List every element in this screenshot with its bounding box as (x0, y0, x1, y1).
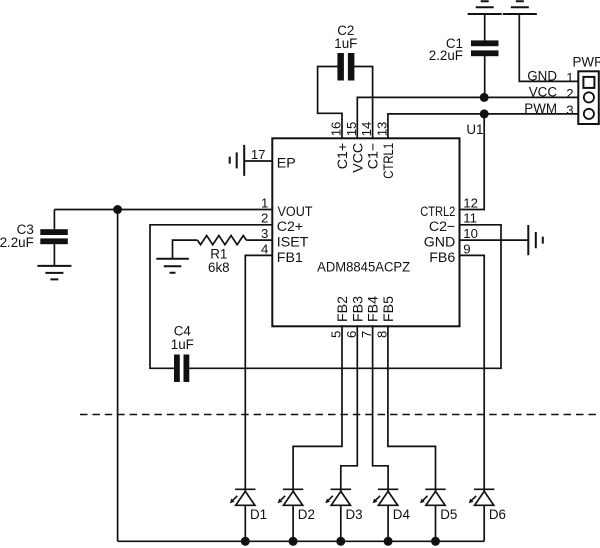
svg-text:VCC: VCC (529, 84, 558, 99)
capacitor C1 stem top (484, 14, 486, 40)
wire pin6 FB3 to D3 (341, 325, 358, 491)
svg-text:6k8: 6k8 (208, 260, 230, 275)
svg-text:D3: D3 (346, 507, 363, 522)
wire GND connector pin1 (519, 14, 578, 81)
svg-text:9: 9 (463, 241, 470, 256)
svg-text:1: 1 (261, 195, 268, 210)
capacitor C3 plates (40, 229, 68, 235)
svg-text:PWR: PWR (573, 55, 600, 70)
connector PWR pad 3 circle (584, 109, 594, 119)
ground above C1 (468, 1, 502, 14)
svg-text:EP: EP (277, 155, 296, 171)
LED D1 (230, 489, 256, 546)
svg-text:C2+: C2+ (277, 219, 303, 235)
capacitor C2 plates (337, 53, 344, 81)
svg-text:D4: D4 (393, 507, 411, 522)
connector PWR pad 1 square (583, 77, 594, 88)
svg-text:4: 4 (261, 241, 268, 256)
ground below C3 (37, 266, 71, 280)
capacitor C1 plates (471, 50, 499, 56)
svg-text:GND: GND (527, 69, 557, 84)
svg-text:C1+: C1+ (335, 143, 351, 169)
LED D3 (325, 489, 351, 546)
node VCC junction (480, 93, 489, 102)
svg-text:ISET: ISET (277, 235, 309, 251)
LED D2 (278, 489, 304, 546)
wire VOUT pin1 horizontal (54, 209, 272, 211)
svg-text:CTRL2: CTRL2 (420, 204, 455, 220)
svg-text:5: 5 (329, 331, 344, 338)
svg-text:14: 14 (359, 122, 374, 137)
svg-text:FB2: FB2 (335, 296, 351, 322)
wire PWM to pin12 CTRL2 (460, 114, 485, 210)
svg-text:2: 2 (566, 86, 573, 101)
wire pin10 GND (460, 239, 529, 241)
pin 17 EP wire (244, 160, 272, 162)
svg-text:1uF: 1uF (171, 337, 194, 352)
svg-text:D6: D6 (489, 507, 506, 522)
wire pin16 C1+ stub (318, 67, 342, 139)
svg-text:D5: D5 (440, 507, 457, 522)
resistor R1 zigzag (197, 236, 246, 245)
svg-text:2.2uF: 2.2uF (429, 48, 463, 63)
ground at pin10 (528, 225, 543, 255)
svg-text:8: 8 (375, 331, 390, 338)
svg-text:VCC: VCC (350, 143, 366, 173)
wire pin3 ISET lead (246, 239, 272, 241)
svg-text:17: 17 (251, 147, 266, 162)
svg-text:10: 10 (463, 226, 478, 241)
svg-text:6: 6 (344, 331, 359, 338)
connector PWR box (578, 71, 599, 124)
wire pin7 FB4 to D4 (373, 325, 389, 491)
svg-text:CTRL1: CTRL1 (381, 143, 397, 179)
wire C4 to pin11 C2- (189, 225, 501, 368)
svg-text:C2−: C2− (429, 219, 455, 235)
svg-text:GND: GND (424, 235, 456, 251)
wire pin4 FB1 to D1 (245, 255, 272, 491)
svg-text:15: 15 (344, 122, 359, 137)
capacitor C3 stem top (53, 210, 55, 230)
svg-text:C1−: C1− (366, 143, 382, 169)
svg-text:3: 3 (566, 103, 573, 118)
svg-text:D1: D1 (250, 507, 267, 522)
svg-text:11: 11 (463, 211, 477, 226)
wire pin2 C2+ to C4 (150, 225, 272, 368)
capacitor C1 stem bottom (484, 56, 486, 97)
svg-text:12: 12 (463, 195, 478, 210)
svg-text:U1: U1 (466, 122, 483, 137)
svg-text:FB6: FB6 (429, 250, 455, 266)
svg-text:13: 13 (375, 122, 390, 137)
capacitor C4 plates (174, 355, 180, 383)
svg-text:1: 1 (566, 70, 573, 85)
svg-text:ADM8845ACPZ: ADM8845ACPZ (317, 260, 410, 276)
wire pin15 VCC (357, 97, 578, 138)
capacitor C3 stem bottom (53, 244, 55, 266)
wire pin8 FB5 to D5 (388, 325, 436, 491)
svg-text:PWM: PWM (524, 101, 557, 116)
wire left rail vertical (117, 210, 119, 542)
svg-text:VOUT: VOUT (278, 204, 313, 220)
svg-text:1uF: 1uF (334, 36, 357, 51)
ground below R1 (156, 259, 189, 273)
dashed separator line (80, 414, 600, 416)
svg-text:2.2uF: 2.2uF (0, 235, 34, 250)
IC U1 ADM8845ACPZ body (272, 138, 459, 326)
connector PWR pad 2 circle (584, 92, 594, 102)
LED D4 (373, 489, 399, 546)
wire bottom rail (118, 540, 485, 542)
svg-text:16: 16 (329, 122, 344, 137)
wire R1 left lead (173, 240, 198, 259)
node VOUT junction (113, 205, 122, 214)
svg-text:FB5: FB5 (381, 296, 397, 322)
svg-text:D2: D2 (298, 507, 315, 522)
svg-text:3: 3 (261, 226, 268, 241)
LED D6 (469, 489, 495, 541)
node PWM junction (480, 109, 489, 118)
svg-text:FB3: FB3 (350, 296, 366, 322)
LED D5 (420, 489, 446, 546)
svg-text:2: 2 (261, 211, 268, 226)
wire pin13 CTRL1 to PWM (388, 114, 578, 138)
svg-text:FB4: FB4 (366, 296, 382, 322)
svg-text:7: 7 (359, 331, 374, 338)
svg-text:FB1: FB1 (277, 250, 303, 266)
ground at EP pin17 (230, 145, 245, 176)
wire C2 right to pin14 C1- (353, 67, 372, 139)
wire pin5 FB2 to D2 (293, 325, 342, 491)
wire pin9 FB6 to D6 (460, 255, 485, 491)
ground above GND wire (503, 1, 537, 14)
